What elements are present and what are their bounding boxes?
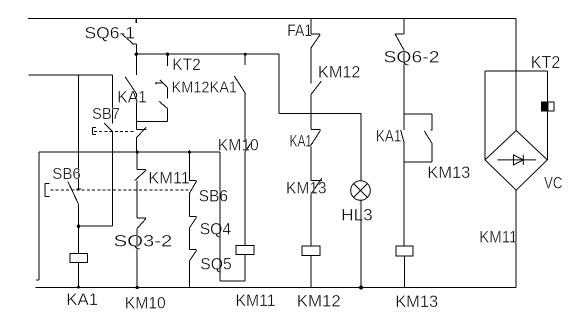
contact KM10 (NO) on x=245 column <box>243 142 252 246</box>
wire feeder drop to SB6/KA1 column <box>78 75 80 152</box>
contact KA1 (NO) below L3b on x=311 column <box>310 114 320 181</box>
svg-text:SQ5: SQ5 <box>200 254 232 273</box>
coil KM11 <box>236 246 254 281</box>
wire top rail L1 <box>28 18 516 20</box>
svg-text:KM12: KM12 <box>318 62 360 81</box>
node junction dot at coil column <box>77 224 81 228</box>
svg-text:KM11: KM11 <box>148 168 190 187</box>
lamp HL3 <box>351 181 371 201</box>
node junction dot KA1 coil-rail <box>77 286 80 289</box>
svg-text:VC: VC <box>544 174 563 193</box>
node junction tick SQ6-1 on L1 <box>135 19 137 23</box>
node junction tick SB6 column on L3 <box>188 150 190 180</box>
node junction dot SQ6-1/L2 <box>135 53 138 56</box>
contact KA1 (middle, NO) on x=245 column <box>234 76 246 142</box>
wire rail L3b <box>279 113 361 115</box>
wire rail L3 <box>39 151 220 153</box>
contact KA1 (left, NO) on x=136 column <box>125 54 137 129</box>
fuse contact FA1 on rail L1 <box>311 19 320 84</box>
wire lamp to bottom rail <box>360 200 362 287</box>
svg-text:SQ4: SQ4 <box>200 219 232 238</box>
wire L3 right end drop <box>219 152 221 281</box>
pushbutton SB7 contact left on x=112.6 column <box>104 75 113 152</box>
wire cross connect to coil column <box>79 225 113 227</box>
node junction dot lamp-rail <box>359 286 363 290</box>
pushbutton SB6 contact right (NO) <box>189 181 196 217</box>
pushbutton SB6 actuator bracket <box>45 183 49 196</box>
svg-text:KA1: KA1 <box>66 290 98 309</box>
svg-text:KA1: KA1 <box>117 88 147 107</box>
node junction tick KM11 column on L3 <box>136 150 138 169</box>
svg-text:KM10: KM10 <box>125 294 166 313</box>
contact KM12 (on KT2 branch) <box>137 101 168 121</box>
svg-text:SQ6-2: SQ6-2 <box>384 48 440 67</box>
coil KM12 <box>302 246 320 288</box>
limit switch SQ5 <box>189 250 196 288</box>
wire left rail drop <box>36 152 39 280</box>
svg-text:FA1: FA1 <box>287 21 312 40</box>
coil KM13 <box>396 246 413 288</box>
svg-text:SQ3-2: SQ3-2 <box>114 232 173 251</box>
pushbutton SB6 contact left (NC) <box>68 152 81 253</box>
wire SB7 column lower segment <box>111 152 113 226</box>
limit switch SQ6-1 <box>121 34 136 55</box>
contact KA1 (right, NO) on x=404 column <box>401 114 404 246</box>
wire jog to KM11 coil <box>220 280 245 282</box>
node junction tick KT2 branch on L2 <box>167 54 169 66</box>
node junction dot KM10 wire-rail <box>136 286 139 289</box>
wire rail L2 <box>136 53 279 55</box>
svg-text:KM12: KM12 <box>297 291 341 310</box>
node junction dot KT2 branch/L2 <box>166 53 169 56</box>
rectifier VC body <box>485 71 547 190</box>
contact KM13 self-hold branch (NO) <box>404 114 433 162</box>
svg-text:KM13: KM13 <box>395 292 438 311</box>
limit switch SQ3-2 <box>137 218 146 288</box>
svg-text:KA1: KA1 <box>290 131 313 150</box>
svg-text:KM13: KM13 <box>427 163 470 182</box>
wire SB6 dashed link <box>51 189 189 191</box>
svg-text:KM11: KM11 <box>236 291 276 310</box>
svg-text:KM13: KM13 <box>286 179 327 198</box>
svg-text:KT2: KT2 <box>172 55 201 74</box>
wire bottom rail <box>36 287 517 289</box>
svg-text:SB6: SB6 <box>52 166 81 183</box>
wire rectifier output down <box>515 190 517 287</box>
svg-text:KA1: KA1 <box>376 126 402 145</box>
svg-text:KT2: KT2 <box>531 52 561 72</box>
terminal marker on VC right side <box>542 102 554 111</box>
svg-text:SQ6-1: SQ6-1 <box>85 24 136 43</box>
node junction tick KA1 branch on L2 <box>244 54 246 65</box>
limit switch SQ6-2 on rail L1 <box>395 19 404 114</box>
coil KA1 <box>70 253 88 287</box>
limit switch SQ4 <box>189 217 196 250</box>
contact KM13 (NC) on x=311 column <box>311 178 322 246</box>
svg-text:SB6: SB6 <box>199 187 228 206</box>
wire lamp branch drop <box>360 114 362 181</box>
time relay contact KT2 (delayed) <box>156 80 168 99</box>
wire right drop from L1 to rectifier <box>515 19 517 131</box>
svg-text:KM10: KM10 <box>218 135 259 154</box>
diode inside VC <box>497 155 536 165</box>
wire L2 right end drop <box>278 54 280 113</box>
pushbutton SB7 contact right on x=136.6 column <box>137 127 147 152</box>
wire SB7 dashed link <box>94 130 136 132</box>
node junction dot KA1 branch/L2 <box>244 53 247 56</box>
contact KM12 (NO) on x=311 column <box>311 81 321 114</box>
contact KM11 (NC) <box>135 169 147 218</box>
svg-text:HL3: HL3 <box>341 205 373 224</box>
pushbutton SB7 actuator bracket <box>93 128 97 135</box>
svg-text:KM12KA1: KM12KA1 <box>172 79 238 96</box>
svg-text:SB7: SB7 <box>92 106 120 123</box>
wire top-left feeder <box>29 74 113 76</box>
svg-text:KM11: KM11 <box>479 228 517 247</box>
